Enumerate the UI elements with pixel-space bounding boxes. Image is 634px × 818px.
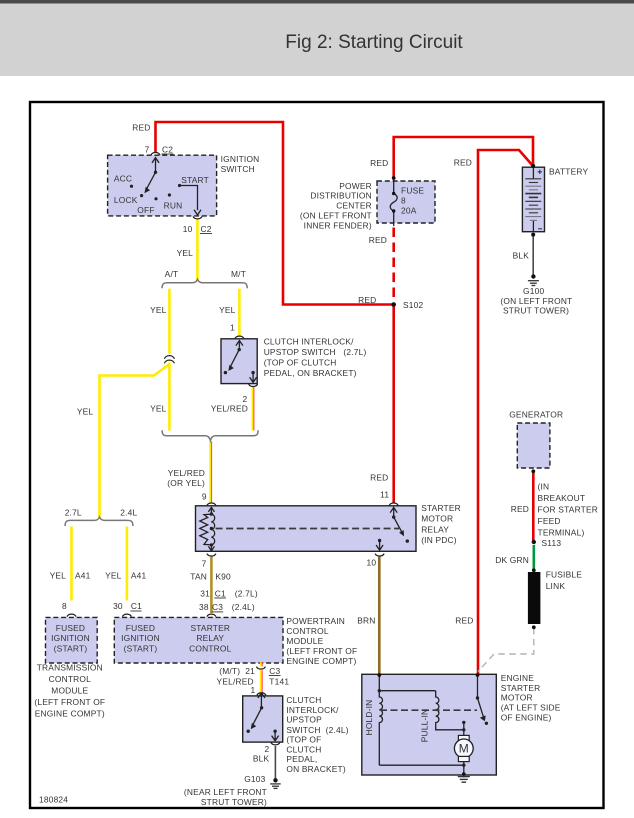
fuse 8 box — [377, 181, 435, 223]
wire gray dashed fusible link to starter — [478, 628, 534, 672]
svg-text:(IN: (IN — [538, 482, 550, 492]
svg-text:C1: C1 — [215, 588, 226, 598]
wire blk battery to G100 — [532, 235, 534, 276]
relay mech dashed line — [216, 528, 399, 530]
svg-text:11: 11 — [380, 490, 389, 500]
hold-in feed — [379, 675, 435, 691]
svg-text:CENTER: CENTER — [336, 201, 372, 211]
pin 9 arc/arrow — [207, 503, 216, 505]
svg-text:(M/T) 21: (M/T) 21 — [219, 666, 255, 676]
svg-text:BATTERY: BATTERY — [549, 166, 588, 176]
PCM box — [114, 617, 283, 663]
svg-text:OFF: OFF — [137, 205, 154, 215]
wire yellow branch to TCM/PCM split — [100, 364, 170, 517]
wire red generator to S113 — [532, 471, 535, 541]
svg-text:FOR STARTER: FOR STARTER — [538, 505, 599, 515]
generator box — [517, 423, 550, 468]
svg-text:31: 31 — [200, 588, 210, 598]
svg-text:(NEAR LEFT FRONT: (NEAR LEFT FRONT — [184, 787, 267, 797]
svg-text:INTERLOCK/: INTERLOCK/ — [286, 705, 339, 715]
svg-text:8: 8 — [401, 196, 406, 206]
svg-text:7: 7 — [202, 558, 207, 568]
wire red ignition feed: pin7 up, right, down, to S102 — [156, 122, 395, 305]
wire red dashed below fuse — [392, 228, 395, 300]
svg-text:PEDAL, ON BRACKET): PEDAL, ON BRACKET) — [264, 368, 357, 378]
svg-text:LINK: LINK — [546, 581, 566, 591]
svg-text:20A: 20A — [401, 206, 417, 216]
svg-text:SWITCH: SWITCH — [221, 164, 255, 174]
motor to ground — [463, 762, 465, 778]
svg-text:RELAY: RELAY — [196, 633, 224, 643]
svg-text:BRN: BRN — [357, 616, 375, 626]
wire brn relay pin10 to starter — [378, 557, 381, 674]
svg-text:A41: A41 — [131, 571, 147, 581]
svg-text:RED: RED — [455, 616, 473, 626]
svg-text:(ON LEFT FRONT: (ON LEFT FRONT — [500, 296, 572, 306]
pin 8 arc — [67, 614, 76, 616]
svg-text:TRANSMISSION: TRANSMISSION — [37, 663, 103, 673]
svg-text:CLUTCH: CLUTCH — [286, 744, 321, 754]
starter motor relay internals — [200, 503, 402, 556]
wire red fuse feed: fuse top to battery — [394, 137, 533, 178]
svg-text:38: 38 — [199, 602, 209, 612]
svg-text:RED: RED — [358, 295, 376, 305]
pin 2 connector arc — [271, 742, 280, 744]
svg-text:YEL: YEL — [150, 404, 167, 414]
svg-text:STARTER: STARTER — [501, 683, 541, 693]
svg-text:2.7L: 2.7L — [65, 507, 82, 517]
svg-text:UPSTOP SWITCH (2.7L): UPSTOP SWITCH (2.7L) — [264, 347, 367, 357]
svg-text:S113: S113 — [542, 538, 562, 548]
wire yellow A/T branch to interrupt — [168, 289, 171, 354]
ignition switch box — [108, 155, 217, 216]
svg-text:FUSED: FUSED — [56, 623, 85, 633]
pin 38 C3 arc — [207, 614, 216, 616]
svg-text:1: 1 — [230, 323, 235, 333]
svg-text:(LEFT FRONT OF: (LEFT FRONT OF — [34, 697, 105, 707]
wire yel/red T141 to clutch2.4 pin1 — [261, 670, 262, 692]
svg-text:RUN: RUN — [164, 200, 183, 210]
start contact wire — [180, 186, 202, 215]
svg-text:STRUT TOWER): STRUT TOWER) — [503, 306, 569, 316]
svg-text:STARTER: STARTER — [421, 503, 461, 513]
svg-text:YEL/RED: YEL/RED — [211, 404, 248, 414]
lever arrowhead — [144, 187, 150, 194]
svg-text:POWERTRAIN: POWERTRAIN — [286, 616, 345, 626]
svg-text:BREAKOUT: BREAKOUT — [538, 493, 586, 503]
switch lever — [147, 172, 156, 188]
svg-text:9: 9 — [202, 492, 207, 502]
svg-text:180824: 180824 — [39, 795, 68, 805]
header gray band — [0, 4, 634, 77]
svg-text:1: 1 — [250, 685, 255, 695]
svg-text:MOTOR: MOTOR — [421, 514, 453, 524]
svg-text:YEL/RED: YEL/RED — [168, 468, 205, 478]
generator bottom dot — [531, 469, 535, 473]
svg-text:C3: C3 — [269, 666, 280, 676]
svg-text:TAN: TAN — [190, 572, 207, 582]
svg-text:STARTER: STARTER — [190, 623, 230, 633]
hold-in coil — [379, 691, 382, 766]
svg-text:CLUTCH: CLUTCH — [286, 695, 321, 705]
brace split 2.7L 2.4L — [65, 517, 133, 526]
svg-text:G103: G103 — [244, 774, 265, 784]
svg-text:10: 10 — [183, 224, 193, 234]
svg-text:TERMINAL): TERMINAL) — [538, 528, 585, 538]
switch stub and lever — [477, 675, 479, 698]
svg-text:CLUTCH INTERLOCK/: CLUTCH INTERLOCK/ — [264, 337, 354, 347]
svg-text:YEL: YEL — [105, 571, 122, 581]
svg-text:ON BRACKET): ON BRACKET) — [286, 764, 345, 774]
svg-text:(LEFT FRONT OF: (LEFT FRONT OF — [286, 646, 357, 656]
svg-text:(TOP OF: (TOP OF — [286, 735, 321, 745]
wire red starter feed: battery to starter motor — [478, 150, 533, 674]
svg-text:RED: RED — [132, 123, 150, 133]
starter motor relay box — [196, 506, 417, 552]
starter mech dashed line — [380, 709, 477, 711]
svg-text:YEL/RED: YEL/RED — [217, 676, 254, 686]
wire yellow split to TCM pin8 — [70, 527, 73, 601]
svg-text:7: 7 — [145, 144, 150, 154]
header dark strip — [0, 0, 634, 4]
wire yellow interrupt to merge brace — [168, 363, 171, 431]
svg-text:YEL: YEL — [150, 305, 167, 315]
diagram border frame — [30, 102, 604, 808]
motor feed — [463, 722, 465, 735]
wire yel/red clutch2.7 pin2 to merge brace — [253, 387, 254, 431]
svg-text:PULL-IN: PULL-IN — [420, 709, 430, 743]
clutch interlock switch 2.7L box — [221, 339, 257, 384]
svg-text:10: 10 — [366, 558, 376, 568]
svg-text:ACC: ACC — [114, 173, 132, 183]
interrupt symbol on A/T wire — [164, 356, 174, 364]
svg-text:MODULE: MODULE — [51, 686, 88, 696]
svg-text:(2.4L): (2.4L) — [232, 602, 255, 612]
relay coil arcs — [211, 514, 214, 545]
svg-text:(START): (START) — [54, 644, 88, 654]
wire yel/red merge brace to relay pin9 — [210, 442, 211, 503]
svg-text:SWITCH (2.4L): SWITCH (2.4L) — [286, 725, 348, 735]
svg-text:(TOP OF CLUTCH: (TOP OF CLUTCH — [264, 358, 337, 368]
svg-text:FUSE: FUSE — [401, 185, 424, 195]
svg-text:INNER FENDER): INNER FENDER) — [304, 220, 372, 230]
svg-text:RELAY: RELAY — [421, 524, 449, 534]
wire blk clutch2.4 pin2 to G103 — [274, 746, 276, 779]
svg-text:ENGINE COMPT): ENGINE COMPT) — [286, 656, 356, 666]
T141 connector arc — [256, 667, 265, 669]
wire yel/red PCM bottom stub — [261, 662, 262, 666]
pin 1 connector arc — [235, 336, 244, 338]
svg-text:C2: C2 — [162, 144, 173, 154]
svg-text:(START): (START) — [124, 644, 158, 654]
TCM box — [46, 617, 98, 663]
svg-text:OF ENGINE): OF ENGINE) — [501, 712, 552, 722]
svg-text:G100: G100 — [523, 286, 544, 296]
svg-text:CONTROL: CONTROL — [49, 674, 91, 684]
svg-text:C2: C2 — [201, 224, 212, 234]
fuse element squiggle — [390, 194, 397, 212]
motor symbol — [458, 735, 469, 740]
svg-text:YEL: YEL — [50, 571, 67, 581]
svg-text:2.4L: 2.4L — [120, 507, 137, 517]
svg-text:HOLD-IN: HOLD-IN — [364, 700, 374, 736]
TCM PCM pin arcs — [67, 614, 266, 695]
clutch interlock 2.7L internals — [231, 336, 258, 386]
fusible link dots — [532, 568, 536, 572]
battery + - signs — [538, 170, 542, 229]
svg-text:DK GRN: DK GRN — [495, 555, 529, 565]
svg-text:ENGINE: ENGINE — [501, 673, 535, 683]
engine starter motor box — [362, 674, 497, 775]
svg-text:START: START — [181, 175, 209, 185]
clutch 2.4 pin1 arc — [257, 693, 266, 695]
svg-text:IGNITION: IGNITION — [51, 633, 90, 643]
clutch interlock switch 2.4L box — [243, 696, 283, 742]
svg-text:RED: RED — [454, 158, 472, 168]
svg-text:IGNITION: IGNITION — [221, 154, 260, 164]
svg-text:MODULE: MODULE — [286, 636, 323, 646]
wire tan relay pin7 to PCM — [210, 557, 213, 613]
wire yellow split to PCM pin30 — [126, 527, 129, 601]
svg-text:BLK: BLK — [253, 753, 270, 763]
svg-text:(2.7L): (2.7L) — [235, 588, 258, 598]
pin 10 stub/arrow/arc — [376, 541, 383, 551]
svg-text:C3: C3 — [212, 602, 223, 612]
svg-text:CONTROL: CONTROL — [189, 644, 231, 654]
svg-text:IGNITION: IGNITION — [121, 633, 160, 643]
svg-text:YEL: YEL — [77, 406, 94, 416]
svg-text:A/T: A/T — [165, 269, 179, 279]
svg-text:FEED: FEED — [538, 516, 561, 526]
fuse 8 internals — [390, 178, 397, 226]
ignition switch internals — [147, 153, 202, 219]
engine starter motor internals — [379, 675, 483, 777]
svg-text:(AT LEFT SIDE: (AT LEFT SIDE — [501, 703, 561, 713]
pin 7 arrow — [152, 158, 159, 173]
svg-text:STRUT TOWER): STRUT TOWER) — [201, 797, 267, 807]
svg-text:CONTROL: CONTROL — [286, 626, 328, 636]
S113 splice dot — [532, 540, 536, 544]
wire dk grn S113 to fusible link — [532, 545, 535, 571]
pin 10 connector arc — [193, 216, 202, 218]
svg-text:YEL: YEL — [219, 305, 236, 315]
svg-text:S102: S102 — [403, 300, 424, 310]
relay contact lever — [394, 517, 403, 533]
svg-text:K90: K90 — [215, 572, 231, 582]
svg-text:LOCK: LOCK — [114, 195, 138, 205]
pull-in coil — [436, 691, 464, 730]
svg-text:PEDAL,: PEDAL, — [286, 754, 317, 764]
svg-text:UPSTOP: UPSTOP — [286, 715, 322, 725]
svg-text:FUSIBLE: FUSIBLE — [546, 570, 583, 580]
pin 30 C1 arc — [122, 614, 131, 616]
svg-text:(IN PDC): (IN PDC) — [421, 535, 457, 545]
svg-text:DISTRIBUTION: DISTRIBUTION — [310, 191, 372, 201]
ground G103 — [270, 784, 281, 789]
svg-text:C1: C1 — [131, 601, 142, 611]
ground G100 — [528, 281, 539, 286]
svg-text:RED: RED — [370, 158, 388, 168]
svg-text:RED: RED — [370, 473, 388, 483]
svg-text:T141: T141 — [269, 676, 289, 686]
svg-text:BLK: BLK — [513, 250, 530, 260]
battery box — [522, 167, 544, 232]
wire yellow ignition pin10 down — [196, 220, 199, 280]
pin 11 arc/arrow — [389, 503, 398, 505]
svg-text:MOTOR: MOTOR — [501, 693, 533, 703]
svg-text:30: 30 — [113, 601, 123, 611]
ignition position dots — [130, 171, 181, 201]
svg-text:YEL: YEL — [177, 248, 194, 258]
brace split A/T M/T — [162, 279, 247, 288]
S102 splice dot — [391, 302, 396, 307]
pin 7 arrow/arc — [208, 545, 214, 551]
wire red S102 to relay pin 11 — [392, 305, 395, 503]
starter ground — [458, 777, 470, 783]
svg-text:FUSED: FUSED — [126, 623, 155, 633]
pin 7 connector arc — [151, 153, 160, 155]
relay coil zigzag — [200, 514, 212, 545]
brace merge to relay pin9 — [162, 430, 258, 440]
pin 2 connector arc — [249, 384, 258, 386]
svg-text:A41: A41 — [75, 571, 91, 581]
svg-text:(OR YEL): (OR YEL) — [167, 478, 205, 488]
svg-text:ENGINE COMPT): ENGINE COMPT) — [35, 708, 105, 718]
svg-text:RED: RED — [511, 504, 529, 514]
svg-text:GENERATOR: GENERATOR — [509, 409, 563, 419]
svg-text:(ON LEFT FRONT: (ON LEFT FRONT — [300, 211, 372, 221]
battery internals — [532, 167, 534, 232]
svg-text:RED: RED — [369, 235, 387, 245]
svg-text:8: 8 — [62, 601, 67, 611]
svg-text:M/T: M/T — [231, 269, 246, 279]
svg-text:POWER: POWER — [339, 181, 372, 191]
battery plates — [525, 179, 541, 221]
clutch interlock 2.4L internals — [253, 693, 280, 745]
svg-text:M: M — [459, 742, 469, 756]
wire yellow M/T branch to clutch pin1 — [238, 289, 241, 336]
fusible link body — [528, 572, 541, 624]
bottom rail — [379, 764, 464, 766]
